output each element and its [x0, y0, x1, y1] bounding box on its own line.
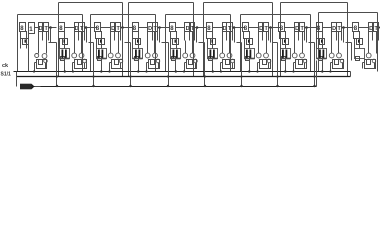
svg-text:1: 1 [29, 26, 33, 33]
svg-text:ck: ck [2, 63, 9, 69]
svg-text:S1/1: S1/1 [1, 72, 12, 78]
svg-text:D: D [332, 26, 336, 32]
svg-text:D: D [39, 26, 43, 32]
svg-text:D: D [148, 26, 152, 32]
svg-text:D: D [111, 26, 115, 32]
svg-text:D: D [186, 26, 190, 32]
svg-text:D: D [259, 26, 263, 32]
svg-text:D: D [295, 26, 299, 32]
svg-text:D: D [369, 26, 373, 32]
